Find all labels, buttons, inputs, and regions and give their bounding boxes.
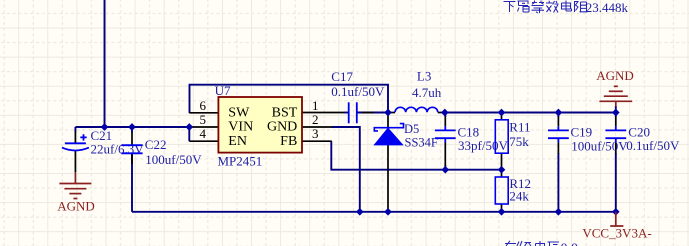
svg-text:U7: U7 (215, 83, 231, 98)
svg-text:L3: L3 (417, 69, 431, 84)
svg-text:23.448k: 23.448k (586, 0, 629, 15)
svg-text:100uf/50V: 100uf/50V (145, 152, 202, 167)
svg-text:AGND: AGND (57, 199, 95, 214)
svg-text:C22: C22 (145, 137, 167, 152)
svg-text:C20: C20 (628, 124, 650, 139)
svg-text:SS34F: SS34F (405, 135, 438, 149)
svg-text:75k: 75k (509, 134, 529, 149)
svg-text:SW: SW (228, 105, 250, 120)
svg-text:D5: D5 (404, 122, 419, 136)
svg-text:GND: GND (267, 120, 297, 135)
svg-text:BST: BST (272, 105, 298, 120)
svg-text:AGND: AGND (596, 68, 634, 83)
svg-text:4: 4 (200, 126, 207, 141)
svg-text:100uf/50V: 100uf/50V (571, 138, 628, 153)
svg-text:VIN: VIN (228, 120, 253, 135)
svg-text:R11: R11 (509, 119, 530, 134)
svg-text:6: 6 (200, 98, 207, 113)
svg-text:EN: EN (228, 134, 247, 149)
svg-text:0.0: 0.0 (561, 242, 579, 246)
svg-text:24k: 24k (509, 188, 529, 203)
svg-text:0.1uf/50V: 0.1uf/50V (626, 138, 680, 153)
svg-text:5: 5 (200, 112, 207, 127)
svg-text:1: 1 (312, 98, 319, 113)
svg-text:MP2451: MP2451 (218, 154, 263, 169)
svg-text:FB: FB (280, 134, 297, 149)
svg-text:33pf/50V: 33pf/50V (458, 138, 508, 153)
svg-text:VCC_3V3A-: VCC_3V3A- (582, 226, 651, 241)
svg-text:C19: C19 (571, 125, 593, 140)
svg-text:2: 2 (312, 112, 319, 127)
svg-text:0.1uf/50V: 0.1uf/50V (331, 84, 385, 99)
svg-text:C17: C17 (331, 69, 353, 84)
svg-text:4.7uh: 4.7uh (412, 85, 442, 100)
svg-text:3: 3 (312, 126, 319, 141)
